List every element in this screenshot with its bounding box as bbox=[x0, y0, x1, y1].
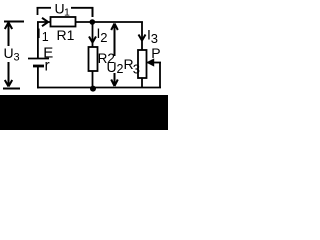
voltage arrow U2 shaft lower bbox=[114, 73, 116, 86]
voltage arrow U2 shaft upper bbox=[114, 24, 116, 56]
svg-text:3: 3 bbox=[14, 52, 20, 64]
U1 bracket left horizontal bbox=[37, 7, 51, 9]
voltage arrow U3 down arrowhead bbox=[5, 80, 12, 87]
voltage arrow U2 down arrowhead bbox=[111, 80, 118, 87]
battery E long plate bbox=[28, 58, 49, 60]
wire middle branch upper bbox=[92, 22, 94, 47]
svg-text:R1: R1 bbox=[57, 27, 75, 43]
wire left branch lower bbox=[37, 66, 39, 88]
resistor R2 bbox=[89, 47, 98, 71]
wire top bbox=[37, 21, 143, 23]
potentiometer wiper arrow bbox=[147, 59, 154, 66]
current arrow I2 bbox=[89, 37, 96, 43]
wire right branch upper bbox=[141, 22, 143, 51]
wire wiper horizontal bbox=[148, 62, 162, 64]
voltage arrow U2 up arrowhead bbox=[111, 24, 118, 31]
wire bottom bbox=[37, 87, 161, 89]
svg-text:P: P bbox=[151, 45, 160, 61]
svg-text:3: 3 bbox=[133, 62, 140, 77]
node junction bottom bbox=[90, 86, 96, 92]
battery r short plate bbox=[33, 65, 44, 68]
svg-text:U: U bbox=[107, 59, 117, 75]
wire right branch lower bbox=[141, 78, 143, 88]
current arrow I3 bbox=[139, 35, 146, 41]
svg-text:2: 2 bbox=[100, 30, 107, 45]
potentiometer R3 bbox=[138, 50, 147, 78]
wire middle branch lower bbox=[92, 71, 94, 88]
voltage arrow U3 bottom cap bbox=[3, 88, 20, 90]
node junction top bbox=[90, 19, 96, 25]
svg-text:U: U bbox=[4, 45, 14, 61]
wire wiper vertical bbox=[159, 63, 161, 89]
resistor R1 bbox=[51, 17, 76, 27]
black bottom bar bbox=[0, 95, 168, 130]
svg-text:r: r bbox=[45, 57, 50, 74]
U1 bracket right horizontal bbox=[71, 7, 93, 9]
voltage arrow U3 up arrowhead bbox=[5, 23, 12, 30]
current arrow I1 bbox=[42, 18, 48, 26]
svg-text:1: 1 bbox=[42, 30, 49, 44]
U1 bracket left vertical bbox=[37, 7, 39, 15]
U1 bracket right vertical bbox=[92, 7, 94, 17]
voltage arrow U3 shaft upper bbox=[8, 23, 10, 46]
voltage arrow U3 shaft lower bbox=[8, 62, 10, 86]
voltage arrow U3 top cap bbox=[4, 21, 24, 23]
svg-text:3: 3 bbox=[151, 31, 158, 46]
svg-text:2: 2 bbox=[117, 62, 124, 76]
wire left branch upper bbox=[37, 22, 39, 59]
